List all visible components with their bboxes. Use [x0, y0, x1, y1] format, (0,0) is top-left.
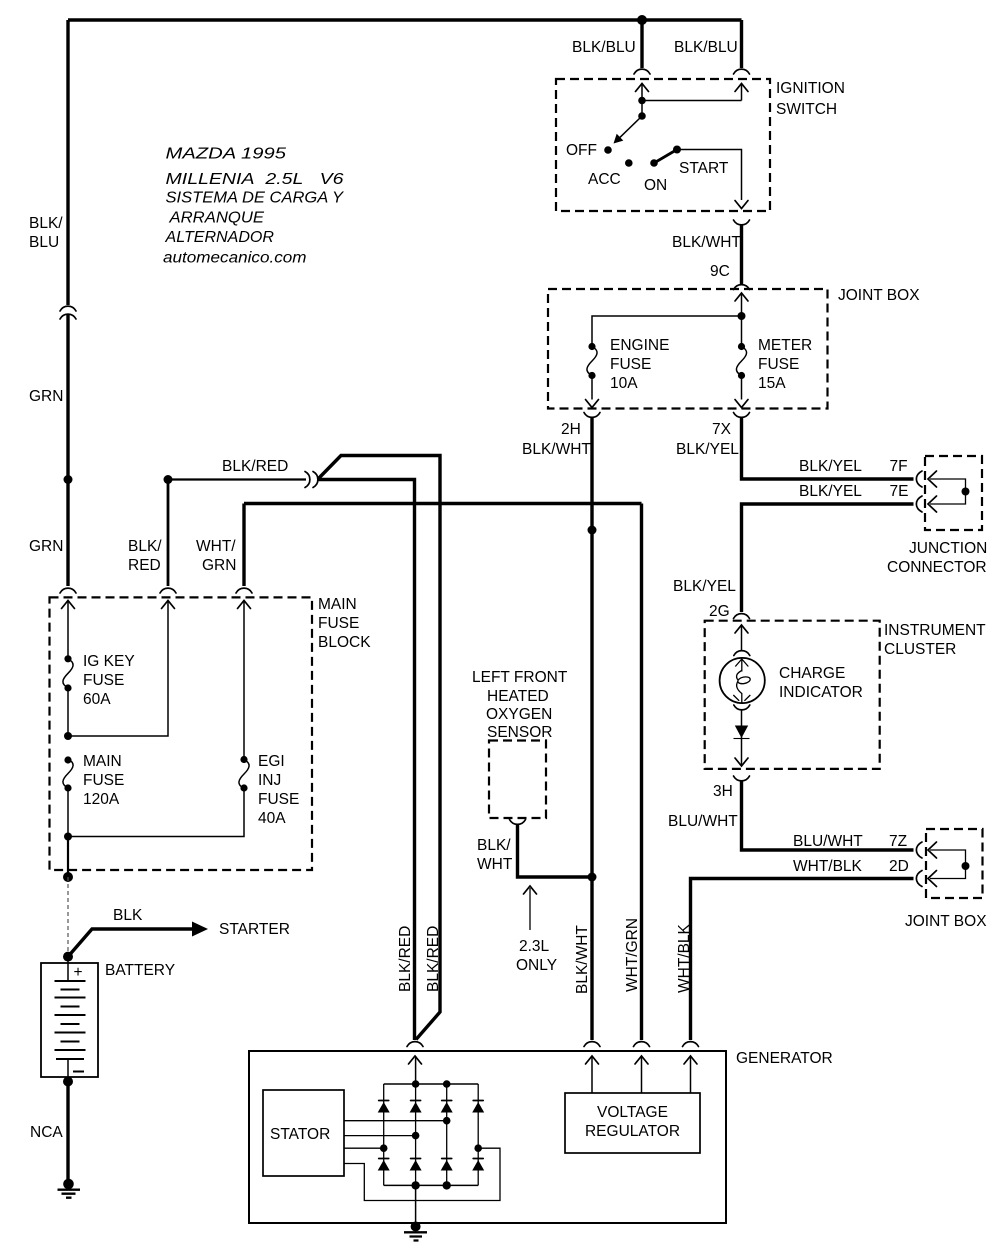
svg-text:BLK/RED: BLK/RED: [425, 926, 442, 992]
pin arrow 2D: [928, 871, 937, 887]
node: splice on BLK/WHT: [588, 873, 597, 882]
svg-text:7F: 7F: [890, 458, 908, 475]
wire: BLK/BLU drop right: [740, 20, 743, 68]
svg-text:NCA: NCA: [30, 1124, 63, 1141]
node: battery negative terminal: [63, 1077, 73, 1087]
node: battery positive junction: [63, 952, 73, 962]
fuse: MAIN FUSE 120A: [64, 756, 71, 763]
wire: joint box feed: [741, 293, 743, 347]
connector arc 2D: [916, 871, 922, 887]
svg-text:MILLENIA 2.5L V6: MILLENIA 2.5L V6: [166, 171, 344, 188]
pin arrow ignition left: [636, 84, 649, 92]
svg-text:MAIN: MAIN: [83, 753, 122, 770]
pin arrow 7X: [735, 400, 748, 408]
svg-text:GENERATOR: GENERATOR: [736, 1050, 833, 1067]
2.3L ONLY callout arrow: [529, 888, 531, 930]
switch contact lever ON-START: [654, 150, 677, 164]
wire: WHT/GRN internal: [243, 601, 245, 760]
wire: engine fuse output: [591, 376, 593, 400]
svg-text:120A: 120A: [83, 791, 120, 808]
wire: left BLK/BLU vertical upper: [66, 20, 69, 305]
svg-text:INJ: INJ: [258, 772, 281, 789]
svg-text:BATTERY: BATTERY: [105, 962, 175, 979]
wire: stator tap 2: [344, 1135, 416, 1137]
svg-text:CLUSTER: CLUSTER: [884, 641, 956, 658]
pin arrow 7Z: [928, 842, 937, 858]
wire: WHT/GRN vertical into fuse block: [242, 504, 245, 587]
pin arrow generator BLK/RED: [409, 1056, 422, 1064]
wire: rectifier center feed: [415, 1056, 417, 1084]
svg-text:BLK: BLK: [113, 907, 143, 924]
svg-text:7X: 7X: [712, 421, 732, 438]
svg-text:7E: 7E: [890, 483, 909, 500]
pin arrow ignition right: [735, 84, 748, 92]
svg-text:JUNCTION: JUNCTION: [909, 540, 987, 557]
node: dot on BLK/WHT wire: [588, 526, 597, 535]
svg-text:FUSE: FUSE: [318, 615, 359, 632]
wire: ignition right stub: [741, 84, 743, 101]
connector arc 2G entry: [734, 614, 750, 619]
svg-text:JOINT BOX: JOINT BOX: [838, 287, 920, 304]
svg-text:SENSOR: SENSOR: [487, 724, 552, 741]
svg-text:METER: METER: [758, 337, 812, 354]
node: ignition splice: [638, 97, 646, 105]
node: tap3 junction: [380, 1144, 388, 1152]
diode D5: [378, 1159, 390, 1171]
wire: joint box internal jumper: [930, 850, 966, 879]
pin arrow 7E: [928, 496, 937, 512]
diode D3: [441, 1101, 453, 1113]
svg-text:ARRANQUE: ARRANQUE: [168, 210, 264, 227]
svg-text:60A: 60A: [83, 691, 111, 708]
pin arrow generator WHT/BLK: [684, 1056, 697, 1064]
wire: BLK/RED vertical into fuse block: [167, 480, 170, 587]
wire: regulator feeds: [592, 1056, 691, 1093]
fuse: IG KEY FUSE 60A: [64, 655, 71, 662]
svg-text:BLOCK: BLOCK: [318, 634, 371, 651]
wire: WHT/GRN horizontal run: [244, 502, 642, 505]
wire: NCA ground wire: [66, 1082, 69, 1181]
stator box: [263, 1090, 344, 1176]
connector arc fuse block entry GRN: [60, 588, 76, 593]
wire: cluster internal lower: [741, 710, 743, 766]
svg-text:RED: RED: [128, 557, 161, 574]
wire: rectifier branch 4: [477, 1084, 479, 1185]
connector arc 7E: [916, 496, 922, 512]
node: junction top feed: [637, 15, 647, 25]
svg-text:BLK/YEL: BLK/YEL: [799, 483, 862, 500]
svg-text:WHT: WHT: [477, 856, 513, 873]
svg-text:OFF: OFF: [566, 142, 597, 159]
diode D8: [472, 1159, 484, 1171]
joint box (lower): [926, 829, 983, 898]
starter arrow: [192, 922, 208, 937]
node: joint box splice: [738, 312, 746, 320]
wire: BLK/WHT oxygen sensor stub: [518, 825, 593, 878]
svg-text:VOLTAGE: VOLTAGE: [597, 1104, 668, 1121]
svg-text:CONNECTOR: CONNECTOR: [887, 559, 987, 576]
wire: top BLK/BLU feed horizontal: [68, 18, 742, 21]
wire: stator tap 1: [344, 1120, 447, 1122]
wire: rectifier bottom bus: [384, 1184, 479, 1186]
svg-text:WHT/BLK: WHT/BLK: [676, 923, 693, 993]
pin arrow 9C: [735, 293, 748, 301]
wire: dashed link to battery: [67, 877, 69, 955]
wire: junction connector internal jumper: [930, 479, 966, 504]
connector arc generator entry BLK/WHT: [584, 1042, 600, 1047]
wire: START output: [677, 150, 742, 201]
svg-text:BLK/WHT: BLK/WHT: [672, 234, 741, 251]
svg-text:MAZDA 1995: MAZDA 1995: [166, 146, 287, 163]
title text block: [163, 146, 345, 267]
connector arc 2H exit: [584, 413, 600, 418]
connector arc oxygen sensor exit: [510, 820, 526, 825]
svg-text:FUSE: FUSE: [83, 672, 124, 689]
svg-text:automecanico.com: automecanico.com: [163, 250, 307, 267]
svg-text:BLK/RED: BLK/RED: [222, 458, 288, 475]
connector: in-line splice on left wire: [60, 306, 76, 311]
node: splice IG KEY out: [64, 732, 72, 740]
wire: BLK to starter: [68, 929, 193, 957]
svg-text:BLK/RED: BLK/RED: [397, 926, 414, 992]
charge indicator bulb: [720, 658, 765, 703]
svg-text:ONLY: ONLY: [516, 957, 557, 974]
bulb terminal arc upper: [734, 651, 750, 656]
switch rotor arm to OFF: [619, 116, 642, 138]
junction connector box: [925, 456, 982, 530]
wire: BLK/RED horizontal to splice: [168, 478, 306, 480]
wire: stator neutral loop: [344, 1148, 500, 1200]
wire: cluster internal upper: [741, 625, 743, 651]
pin arrow 2G: [735, 625, 748, 633]
svg-text:MAIN: MAIN: [318, 596, 357, 613]
pin arrow BLK/RED: [162, 601, 175, 609]
terminal START: [673, 146, 681, 154]
battery BAT1: [41, 963, 98, 1077]
connector arc 7F: [916, 471, 922, 487]
svg-text:BLU/WHT: BLU/WHT: [793, 833, 863, 850]
svg-text:ACC: ACC: [588, 171, 621, 188]
svg-text:FUSE: FUSE: [258, 791, 299, 808]
svg-text:BLK/YEL: BLK/YEL: [799, 458, 862, 475]
svg-text:FUSE: FUSE: [83, 772, 124, 789]
fuse: EGI INJ FUSE 40A: [240, 756, 247, 763]
pin arrow 2H: [586, 400, 599, 408]
wire: below MAIN fuse: [67, 788, 69, 837]
fuse: METER FUSE 15A: [738, 343, 745, 350]
svg-text:40A: 40A: [258, 810, 286, 827]
connector arc fuse block entry WHT/GRN: [236, 588, 252, 593]
wire: left GRN vertical: [66, 315, 69, 587]
svg-text:9C: 9C: [710, 263, 730, 280]
svg-text:BLK/: BLK/: [477, 837, 511, 854]
connector arc 7X exit: [734, 413, 750, 418]
svg-text:INDICATOR: INDICATOR: [779, 684, 863, 701]
battery plates: [67, 957, 69, 981]
svg-text:GRN: GRN: [29, 388, 63, 405]
wire: fuse block output to battery: [67, 837, 69, 878]
wire: BLU/WHT drop: [742, 781, 914, 850]
joint box (upper): [548, 289, 828, 409]
svg-text:2D: 2D: [889, 858, 909, 875]
pin arrow ignition bottom: [735, 201, 748, 209]
node: neutral junction: [474, 1144, 482, 1152]
wire: WHT/BLK from 2D to generator: [691, 879, 914, 1041]
node: top bus junctions: [412, 1080, 420, 1088]
wire: rectifier branch 1: [383, 1084, 385, 1185]
svg-text:IG KEY: IG KEY: [83, 653, 135, 670]
svg-text:GRN: GRN: [29, 538, 63, 555]
wire: ignition internal jumper: [642, 100, 742, 102]
connector arc generator entry WHT/GRN: [634, 1042, 650, 1047]
terminal ON: [650, 159, 658, 167]
node: rotor pivot: [638, 112, 646, 120]
diode D2: [410, 1101, 422, 1113]
fuse: ENGINE FUSE 10A: [588, 343, 595, 350]
bulb terminal arc lower: [734, 705, 750, 710]
svg-text:ON: ON: [644, 177, 667, 194]
pin arrow 7F: [928, 471, 937, 487]
svg-text:ENGINE: ENGINE: [610, 337, 669, 354]
voltage regulator box: [565, 1093, 700, 1153]
wire: BLK/YEL to 7F: [742, 418, 914, 480]
svg-text:BLK/: BLK/: [128, 538, 162, 555]
svg-text:BLK/BLU: BLK/BLU: [674, 39, 738, 56]
connector arc 3H exit: [734, 776, 750, 781]
ignition switch box: [556, 79, 770, 211]
diode arrow in cluster: [735, 726, 748, 739]
pin arrow 3H: [735, 758, 748, 766]
svg-text:OXYGEN: OXYGEN: [486, 706, 552, 723]
svg-text:STATOR: STATOR: [270, 1126, 330, 1143]
wire: ignition internal left: [641, 84, 643, 117]
wire: rectifier branch 3: [446, 1084, 448, 1185]
wire: BLK/WHT ignition to joint box: [740, 225, 743, 284]
oxygen sensor box: [489, 741, 546, 819]
svg-text:START: START: [679, 160, 729, 177]
svg-text:2.3L: 2.3L: [519, 938, 550, 955]
terminal ACC: [625, 159, 633, 167]
connector arc fuse block entry BLK/RED: [160, 588, 176, 593]
connector arc 7Z: [916, 842, 922, 858]
wire: joint box jumper to engine fuse: [592, 316, 742, 347]
wire: BLK/YEL 7E return: [742, 504, 914, 612]
wire: meter fuse output: [741, 376, 743, 400]
wire: fuse block internal GRN feed: [67, 601, 69, 659]
connector arc joint box entry 9C: [734, 285, 750, 290]
node: splice MAIN out: [64, 833, 72, 841]
svg-text:EGI: EGI: [258, 753, 285, 770]
pin arrow GRN: [62, 601, 75, 609]
svg-text:BLU: BLU: [29, 234, 59, 251]
svg-text:FUSE: FUSE: [610, 356, 651, 373]
wire: stator tap 3: [344, 1147, 384, 1149]
svg-text:BLK/WHT: BLK/WHT: [522, 441, 591, 458]
svg-text:3H: 3H: [713, 783, 733, 800]
svg-text:+: +: [74, 964, 83, 981]
wire: BLK/RED branch lower (to x=414.5): [319, 480, 415, 1041]
svg-text:7Z: 7Z: [889, 833, 907, 850]
connector arc generator entry WHT/BLK: [683, 1042, 699, 1047]
svg-text:WHT/: WHT/: [196, 538, 236, 555]
generator box: [249, 1051, 726, 1223]
ground: battery ground: [63, 1179, 74, 1190]
main fuse block box: [50, 597, 313, 870]
node: battery feed junction: [63, 872, 73, 882]
pin arrow generator WHT/GRN: [635, 1056, 648, 1064]
wire: BLK/WHT long vertical to generator: [590, 418, 593, 1041]
svg-text:GRN: GRN: [202, 557, 236, 574]
svg-text:REGULATOR: REGULATOR: [585, 1123, 680, 1140]
diode D6: [410, 1159, 422, 1171]
node: tap1 junction: [443, 1117, 451, 1125]
svg-text:HEATED: HEATED: [487, 688, 549, 705]
svg-text:BLK/BLU: BLK/BLU: [572, 39, 636, 56]
svg-text:JOINT BOX: JOINT BOX: [905, 913, 987, 930]
node: bottom bus junctions: [411, 1181, 419, 1189]
ground: generator ground: [411, 1222, 421, 1232]
pin arrow WHT/GRN: [238, 601, 251, 609]
wire: below IG KEY fuse: [67, 688, 69, 736]
connector arc ignition right entry: [734, 69, 750, 74]
diode D4: [472, 1101, 484, 1113]
connector: in-line splice BLK/RED: [305, 472, 310, 488]
connector arc ignition left entry: [634, 69, 650, 74]
svg-text:2H: 2H: [561, 421, 581, 438]
svg-text:15A: 15A: [758, 375, 786, 392]
svg-text:BLK/WHT: BLK/WHT: [574, 925, 591, 994]
connector arc generator entry BLK/RED: [407, 1042, 423, 1047]
svg-text:10A: 10A: [610, 375, 638, 392]
svg-text:BLU/WHT: BLU/WHT: [668, 813, 738, 830]
svg-text:SISTEMA DE CARGA Y: SISTEMA DE CARGA Y: [166, 190, 345, 207]
wire: rectifier ground lead: [415, 1185, 417, 1222]
svg-text:WHT/GRN: WHT/GRN: [624, 918, 641, 992]
svg-text:IGNITION: IGNITION: [776, 80, 845, 97]
wire: rectifier top bus: [384, 1083, 479, 1085]
wire: EGI branch: [68, 788, 244, 837]
svg-text:STARTER: STARTER: [219, 921, 290, 938]
svg-text:INSTRUMENT: INSTRUMENT: [884, 622, 986, 639]
pin arrow generator BLK/WHT: [586, 1056, 599, 1064]
svg-text:ALTERNADOR: ALTERNADOR: [164, 229, 274, 246]
wire: BLK/RED branch upper (to x=440): [319, 456, 441, 1040]
wire: BLK/BLU drop left: [640, 20, 643, 68]
svg-text:BLK/: BLK/: [29, 215, 63, 232]
node: tap2 junction: [412, 1132, 420, 1140]
instrument cluster box: [705, 621, 880, 769]
diode D1: [378, 1101, 390, 1113]
svg-text:BLK/YEL: BLK/YEL: [676, 441, 739, 458]
node: junction connector splice: [962, 488, 970, 496]
svg-text:SWITCH: SWITCH: [776, 101, 837, 118]
wire: WHT/GRN vertical down to generator: [640, 504, 643, 1041]
terminal OFF: [604, 146, 612, 154]
connector arc ignition exit: [734, 220, 750, 225]
svg-text:FUSE: FUSE: [758, 356, 799, 373]
node: junction on GRN wire: [64, 475, 73, 484]
wire: BLK/RED internal branch: [68, 601, 168, 737]
svg-text:CHARGE: CHARGE: [779, 665, 845, 682]
diode D7: [441, 1159, 453, 1171]
node: joint box splice: [962, 862, 970, 870]
svg-text:LEFT FRONT: LEFT FRONT: [472, 669, 568, 686]
svg-text:WHT/BLK: WHT/BLK: [793, 858, 863, 875]
node: BLK/RED junction: [164, 475, 173, 484]
svg-text:BLK/YEL: BLK/YEL: [673, 578, 736, 595]
svg-text:2G: 2G: [709, 603, 730, 620]
wire: rectifier branch 2: [415, 1084, 417, 1185]
